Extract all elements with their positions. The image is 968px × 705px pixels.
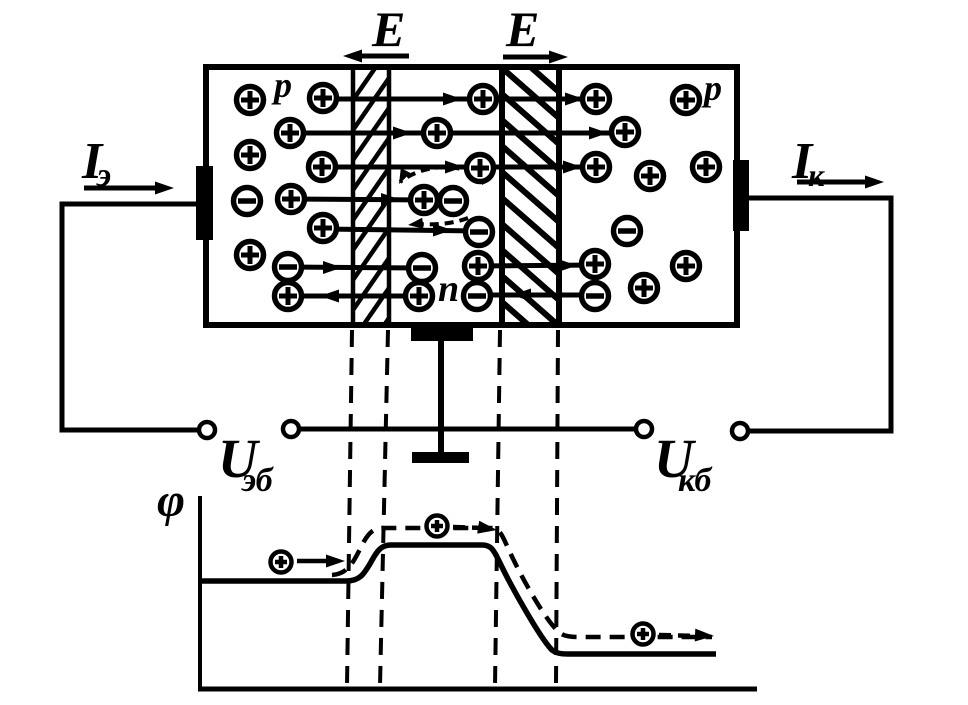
electron B4 bbox=[464, 283, 491, 310]
hole E1 bbox=[237, 87, 264, 114]
hole C7 bbox=[673, 253, 700, 280]
carrier flow row5 bbox=[323, 224, 479, 237]
svg-text:э: э bbox=[96, 157, 111, 194]
hole E8 bbox=[237, 242, 264, 269]
hole B5 bbox=[406, 283, 433, 310]
emitter wire bbox=[62, 204, 199, 430]
hole C5 bbox=[637, 163, 664, 190]
hole C2 bbox=[612, 119, 639, 146]
label U emitter-base bbox=[218, 428, 275, 499]
carrier flow row1 bbox=[322, 93, 596, 106]
svg-text:n: n bbox=[438, 268, 459, 310]
electron B2 bbox=[466, 219, 493, 246]
field E right arrow bbox=[503, 51, 568, 64]
collector circuit terminal bbox=[732, 423, 748, 439]
emitter terminal contact bbox=[196, 166, 213, 240]
hole C8 bbox=[631, 275, 658, 302]
base-emitter wire bbox=[300, 427, 635, 432]
hole on emitter potential bbox=[271, 552, 292, 573]
hole E6 bbox=[278, 186, 305, 213]
label U collector-base bbox=[654, 428, 713, 499]
dashed extension of emitter junction left edge bbox=[347, 330, 352, 686]
carrier flow row3 bbox=[322, 161, 596, 174]
hole on collector potential bbox=[633, 624, 654, 645]
electron E2 bbox=[275, 254, 302, 281]
dashed extension of collector junction left edge bbox=[495, 330, 500, 686]
hole C6 bbox=[693, 154, 720, 181]
arrow hole collector potential dashed bbox=[659, 629, 714, 642]
dashed extension of collector junction right edge bbox=[556, 330, 558, 686]
svg-text:к: к bbox=[808, 157, 825, 193]
svg-text:кб: кб bbox=[678, 462, 713, 499]
hole E3 bbox=[237, 142, 264, 169]
electron B1 recombining bbox=[440, 188, 467, 215]
hole E2 bbox=[277, 120, 304, 147]
svg-text:p: p bbox=[701, 68, 722, 108]
collector wire bbox=[748, 198, 891, 431]
collector terminal contact bbox=[733, 160, 749, 231]
hole E4 bbox=[310, 85, 337, 112]
carrier flow row4 bbox=[291, 193, 424, 206]
svg-text:E: E bbox=[371, 1, 405, 57]
electron C1 bbox=[614, 218, 641, 245]
electron flow row6 bbox=[288, 261, 422, 274]
hole B3 bbox=[467, 155, 494, 182]
electron flow row7 leftward bbox=[288, 290, 419, 303]
label I emitter bbox=[81, 133, 111, 194]
electron B3 bbox=[409, 255, 436, 282]
emitter circuit terminal bbox=[199, 422, 215, 438]
right junction hatched band bbox=[502, 42, 559, 352]
hole C9 bbox=[582, 251, 609, 278]
hole B6 bbox=[465, 253, 492, 280]
svg-text:p: p bbox=[271, 65, 292, 105]
carrier flow row2 bbox=[290, 127, 625, 140]
svg-text:эб: эб bbox=[241, 462, 275, 499]
potential curve solid bbox=[200, 545, 716, 654]
arrow hole emitter potential bbox=[297, 555, 345, 568]
recombination dashed arrow lower bbox=[408, 218, 468, 229]
ground bbox=[412, 452, 469, 463]
hole crossing collector junction bbox=[478, 259, 595, 272]
base wire to ground bbox=[438, 340, 444, 453]
base left terminal bbox=[283, 421, 299, 437]
hole E5 bbox=[309, 154, 336, 181]
svg-text:φ: φ bbox=[157, 474, 185, 527]
field E left arrow bbox=[343, 50, 409, 63]
potential axis horizontal bbox=[198, 687, 757, 692]
dashed extension of emitter junction right edge bbox=[380, 330, 388, 686]
hole B2 bbox=[470, 86, 497, 113]
hole C4 bbox=[583, 154, 610, 181]
electron E1 bbox=[234, 188, 261, 215]
collector current arrow bbox=[797, 176, 884, 189]
base right terminal bbox=[636, 421, 652, 437]
hole E9 bbox=[275, 283, 302, 310]
recombination dashed swirl upper arc bbox=[399, 167, 484, 184]
transistor body outline bbox=[206, 67, 737, 325]
svg-text:E: E bbox=[505, 1, 539, 57]
emitter current arrow bbox=[84, 182, 174, 195]
hole B4 recombining bbox=[411, 187, 438, 214]
hole B1 bbox=[424, 120, 451, 147]
hole on base potential bbox=[427, 516, 448, 537]
hole C1 bbox=[583, 86, 610, 113]
hole C3 bbox=[673, 87, 700, 114]
hole E7 bbox=[310, 215, 337, 242]
potential curve dashed bbox=[332, 528, 712, 637]
label I collector bbox=[791, 133, 825, 193]
electron C2 bbox=[582, 283, 609, 310]
arrow hole base potential dashed bbox=[453, 521, 497, 534]
base contact bbox=[411, 327, 473, 341]
potential axis vertical bbox=[198, 496, 202, 690]
electron crossing collector junction leftward bbox=[477, 289, 595, 302]
